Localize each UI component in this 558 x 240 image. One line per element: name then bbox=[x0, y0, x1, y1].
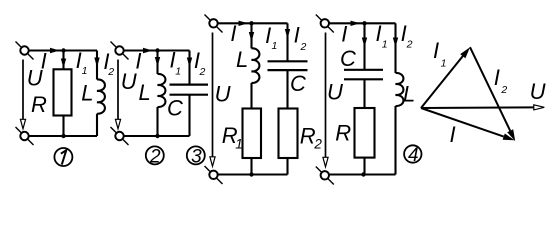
svg-text:2: 2 bbox=[300, 41, 307, 53]
phasor vector I bbox=[421, 108, 515, 140]
label I1 (circuit 3) bbox=[265, 23, 277, 52]
inductor L (circuit 1) bbox=[97, 79, 105, 113]
wire between C and R (circuit 4) bbox=[363, 79, 365, 108]
label I1 (circuit 2) bbox=[170, 48, 182, 78]
label I1 (circuit 4) bbox=[376, 21, 388, 50]
resistor R (circuit 1) bbox=[54, 69, 72, 115]
wire R1 branch bottom (circuit 3) bbox=[250, 158, 252, 175]
svg-text:I: I bbox=[265, 23, 271, 48]
circled number 2 bbox=[146, 146, 164, 167]
circled number 3 bbox=[187, 146, 205, 167]
svg-text:2: 2 bbox=[313, 136, 322, 151]
node junction top (circuit 4) bbox=[362, 21, 366, 25]
wire C branch top (circuit 3) bbox=[286, 23, 288, 61]
capacitor C (circuit 4) bbox=[344, 70, 383, 80]
current arrow I2 (circuit 2) bbox=[187, 58, 192, 68]
wire top circuit 3 bbox=[218, 22, 288, 24]
svg-text:2: 2 bbox=[107, 66, 114, 78]
current arrow I (circuit 3) bbox=[239, 21, 249, 26]
svg-text:I: I bbox=[294, 23, 300, 48]
svg-text:L: L bbox=[236, 47, 248, 72]
circled number 1 bbox=[54, 148, 72, 166]
current arrow I2 (circuit 4) bbox=[393, 38, 398, 48]
wire L/R1 branch top (circuit 3) bbox=[250, 23, 252, 48]
wire C branch bottom (circuit 2) bbox=[188, 95, 190, 136]
svg-text:C: C bbox=[290, 71, 306, 96]
svg-text:2: 2 bbox=[500, 84, 507, 96]
terminal X2 bottom (circuit 1) bbox=[16, 127, 34, 145]
wire R branch top (circuit 1) bbox=[62, 51, 64, 70]
svg-text:I: I bbox=[230, 21, 236, 46]
terminal X2 bottom (circuit 3) bbox=[205, 166, 223, 184]
capacitor C (circuit 2) bbox=[170, 85, 209, 95]
wire C/R branch top (circuit 4) bbox=[363, 23, 365, 70]
svg-text:C: C bbox=[167, 96, 183, 121]
label I1 (circuit 1) bbox=[76, 48, 88, 77]
svg-text:L: L bbox=[139, 80, 151, 105]
voltage arrow U (circuit 4) bbox=[323, 33, 328, 167]
wire top circuit 4 bbox=[329, 22, 396, 24]
phasor vector U bbox=[421, 105, 544, 110]
label I2 (circuit 3) bbox=[294, 23, 307, 53]
wire L branch top (circuit 1) bbox=[96, 51, 98, 80]
wire R branch bottom (circuit 4) bbox=[363, 158, 365, 175]
capacitor C (circuit 3) bbox=[268, 61, 308, 70]
svg-text:1: 1 bbox=[175, 65, 181, 77]
node junction top (circuit 2) bbox=[155, 48, 159, 52]
svg-text:1: 1 bbox=[272, 40, 278, 52]
voltage arrow U (circuit 2) bbox=[115, 60, 120, 129]
wire R2 branch bottom (circuit 3) bbox=[286, 158, 288, 175]
node junction bottom (circuit 4) bbox=[361, 172, 365, 176]
resistor R (circuit 4) bbox=[355, 108, 375, 158]
current arrow I1 (circuit 2) bbox=[155, 57, 160, 67]
wire R branch bottom (circuit 1) bbox=[62, 116, 64, 137]
node junction top (circuit 1) bbox=[61, 48, 65, 52]
svg-text:L: L bbox=[81, 80, 93, 105]
inductor L (circuit 3) bbox=[252, 48, 260, 83]
svg-text:U: U bbox=[327, 79, 343, 104]
svg-text:I: I bbox=[494, 65, 500, 90]
wire bottom circuit 1 bbox=[29, 135, 97, 137]
current arrow I1 (circuit 4) bbox=[362, 38, 367, 48]
svg-text:R: R bbox=[335, 121, 351, 146]
svg-text:2: 2 bbox=[199, 66, 206, 78]
current arrow I (circuit 2) bbox=[143, 48, 153, 53]
resistor R1 (circuit 3) bbox=[243, 109, 262, 159]
svg-text:1: 1 bbox=[82, 65, 88, 77]
terminal X2 bottom (circuit 4) bbox=[316, 167, 334, 185]
svg-text:U: U bbox=[27, 66, 43, 91]
current arrow I1 (circuit 1) bbox=[61, 59, 66, 69]
wire L branch top (circuit 2) bbox=[156, 51, 158, 75]
phasor vector I2 bbox=[470, 47, 515, 141]
node junction top (circuit 3) bbox=[249, 21, 253, 25]
wire top circuit 2 bbox=[124, 49, 190, 51]
current arrow I (circuit 4) bbox=[351, 21, 361, 26]
label I1 (phasor) bbox=[433, 38, 446, 69]
terminal X1 top (circuit 1) bbox=[16, 42, 34, 60]
node junction bottom (circuit 3) bbox=[249, 172, 253, 176]
wire bottom circuit 2 bbox=[124, 135, 190, 137]
wire L branch bottom (circuit 1) bbox=[96, 114, 98, 136]
wire between C and R2 (circuit 3) bbox=[286, 70, 288, 108]
svg-text:1: 1 bbox=[441, 57, 447, 69]
current arrow I1 (circuit 3) bbox=[249, 32, 254, 42]
svg-text:C: C bbox=[340, 46, 356, 71]
voltage arrow U (circuit 3) bbox=[210, 33, 215, 167]
label I2 (phasor) bbox=[494, 65, 508, 96]
wire bottom circuit 4 bbox=[329, 173, 396, 175]
svg-text:U: U bbox=[121, 69, 137, 94]
terminal X2 bottom (circuit 2) bbox=[111, 127, 129, 145]
svg-text:U: U bbox=[215, 82, 231, 107]
label R1 (circuit 3) bbox=[222, 123, 243, 152]
wire bottom circuit 3 bbox=[218, 173, 288, 175]
label I2 (circuit 2) bbox=[194, 48, 206, 78]
current arrow I2 (circuit 3) bbox=[285, 29, 290, 39]
svg-text:2: 2 bbox=[406, 39, 413, 51]
wire between L and R1 (circuit 3) bbox=[250, 83, 252, 109]
svg-text:4: 4 bbox=[408, 145, 419, 166]
label I2 (circuit 1) bbox=[103, 49, 114, 78]
wire L branch bottom (circuit 2) bbox=[156, 107, 158, 136]
resistor R2 (circuit 3) bbox=[279, 109, 298, 159]
circled number 4 bbox=[404, 145, 421, 166]
svg-text:2: 2 bbox=[149, 146, 161, 167]
terminal X1 top (circuit 2) bbox=[111, 42, 129, 60]
svg-text:I: I bbox=[450, 122, 456, 147]
voltage arrow U (circuit 1) bbox=[20, 60, 25, 129]
wire C branch top (circuit 2) bbox=[188, 51, 190, 85]
current arrow I2 (circuit 1) bbox=[94, 58, 99, 68]
svg-text:3: 3 bbox=[191, 146, 202, 167]
label R2 (circuit 3) bbox=[300, 123, 323, 151]
current arrow I (circuit 1) bbox=[50, 48, 60, 53]
svg-text:1: 1 bbox=[382, 38, 388, 50]
svg-text:I: I bbox=[376, 21, 382, 46]
svg-text:R: R bbox=[31, 92, 47, 117]
svg-text:1: 1 bbox=[235, 137, 243, 152]
svg-text:R: R bbox=[300, 123, 316, 148]
wire L branch bottom (circuit 4) bbox=[394, 106, 396, 175]
phasor vector I1 bbox=[421, 47, 470, 108]
terminal X1 top (circuit 4) bbox=[316, 15, 334, 33]
svg-text:U: U bbox=[530, 79, 546, 104]
wire top circuit 1 bbox=[29, 49, 97, 51]
inductor L (circuit 4) bbox=[396, 73, 404, 106]
svg-text:L: L bbox=[403, 81, 415, 106]
svg-text:I: I bbox=[433, 38, 439, 63]
wire L branch top (circuit 4) bbox=[394, 23, 396, 73]
node junction bottom (circuit 2) bbox=[155, 134, 159, 138]
inductor L (circuit 2) bbox=[158, 74, 166, 107]
terminal X1 top (circuit 3) bbox=[205, 15, 223, 33]
node junction bottom (circuit 1) bbox=[61, 134, 65, 138]
label I2 (circuit 4) bbox=[401, 21, 413, 51]
svg-text:I: I bbox=[341, 22, 347, 47]
